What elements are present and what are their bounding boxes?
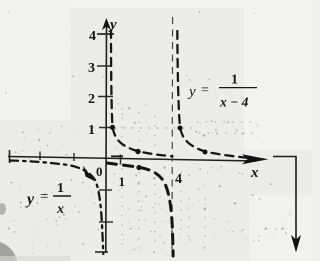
curve dot on right branch bend (178, 126, 183, 131)
svg-text:4: 4 (175, 172, 182, 187)
svg-text:1: 1 (57, 181, 64, 196)
y-axis (105, 22, 108, 253)
svg-text:y: y (187, 84, 196, 100)
faint vertical grid dots at x=1,2,3 (122, 108, 205, 250)
svg-text:0: 0 (96, 164, 103, 179)
y-axis ticks -1,-2 and bottom foot (99, 189, 112, 191)
x-axis (8, 157, 256, 162)
dashed asymptote x=4 (171, 17, 174, 253)
curve dot on left branch (136, 165, 141, 170)
y-axis arrowhead (102, 18, 111, 30)
curve y=1/(x-4), right branch (x>4) (177, 31, 263, 160)
svg-text:y: y (108, 17, 117, 33)
curve dot on right branch flat part (203, 150, 208, 155)
svg-text:2: 2 (88, 92, 95, 107)
arrow-like thick mark near origin on descending branch (83, 166, 95, 182)
svg-text:x: x (56, 202, 64, 217)
svg-text:3: 3 (88, 61, 95, 76)
svg-text:1: 1 (88, 123, 95, 138)
svg-text:y: y (25, 191, 35, 208)
left edge scan mark (0, 203, 6, 215)
equation label y = 1/(x-4) (187, 73, 257, 110)
dotted guide rows right of x=4 (197, 122, 258, 133)
curve y=1/x, third-quadrant branch (10, 161, 103, 255)
curve dot at bend (1,1) (110, 125, 115, 130)
svg-text:=: = (201, 83, 209, 98)
right margin rule with down arrow (273, 157, 296, 241)
curve dot mid (135, 149, 140, 154)
dotted guide row at y=1 (115, 127, 192, 129)
x-axis tick x=1 (120, 155, 122, 165)
equation label y = 1/x (25, 181, 71, 217)
svg-text:1: 1 (231, 73, 238, 88)
y-axis ticks 1..4 (99, 127, 114, 129)
curve y=1/x, first-quadrant branch (111, 30, 173, 156)
svg-text:1: 1 (119, 174, 126, 189)
x-axis tick x=-2 (73, 153, 75, 161)
x-axis tick x=-4 (39, 152, 41, 161)
svg-text:=: = (40, 189, 48, 205)
bottom-left corner scan smudge (0, 242, 17, 261)
x-axis arrowhead (242, 154, 269, 164)
svg-text:x: x (250, 165, 259, 181)
stray scan dash above axis near origin (111, 155, 123, 157)
x-axis left end tick (9, 150, 11, 163)
svg-text:4: 4 (89, 29, 96, 44)
svg-text:x − 4: x − 4 (219, 95, 249, 110)
curve y=1/(x-4), left branch (x<4) (107, 163, 173, 256)
